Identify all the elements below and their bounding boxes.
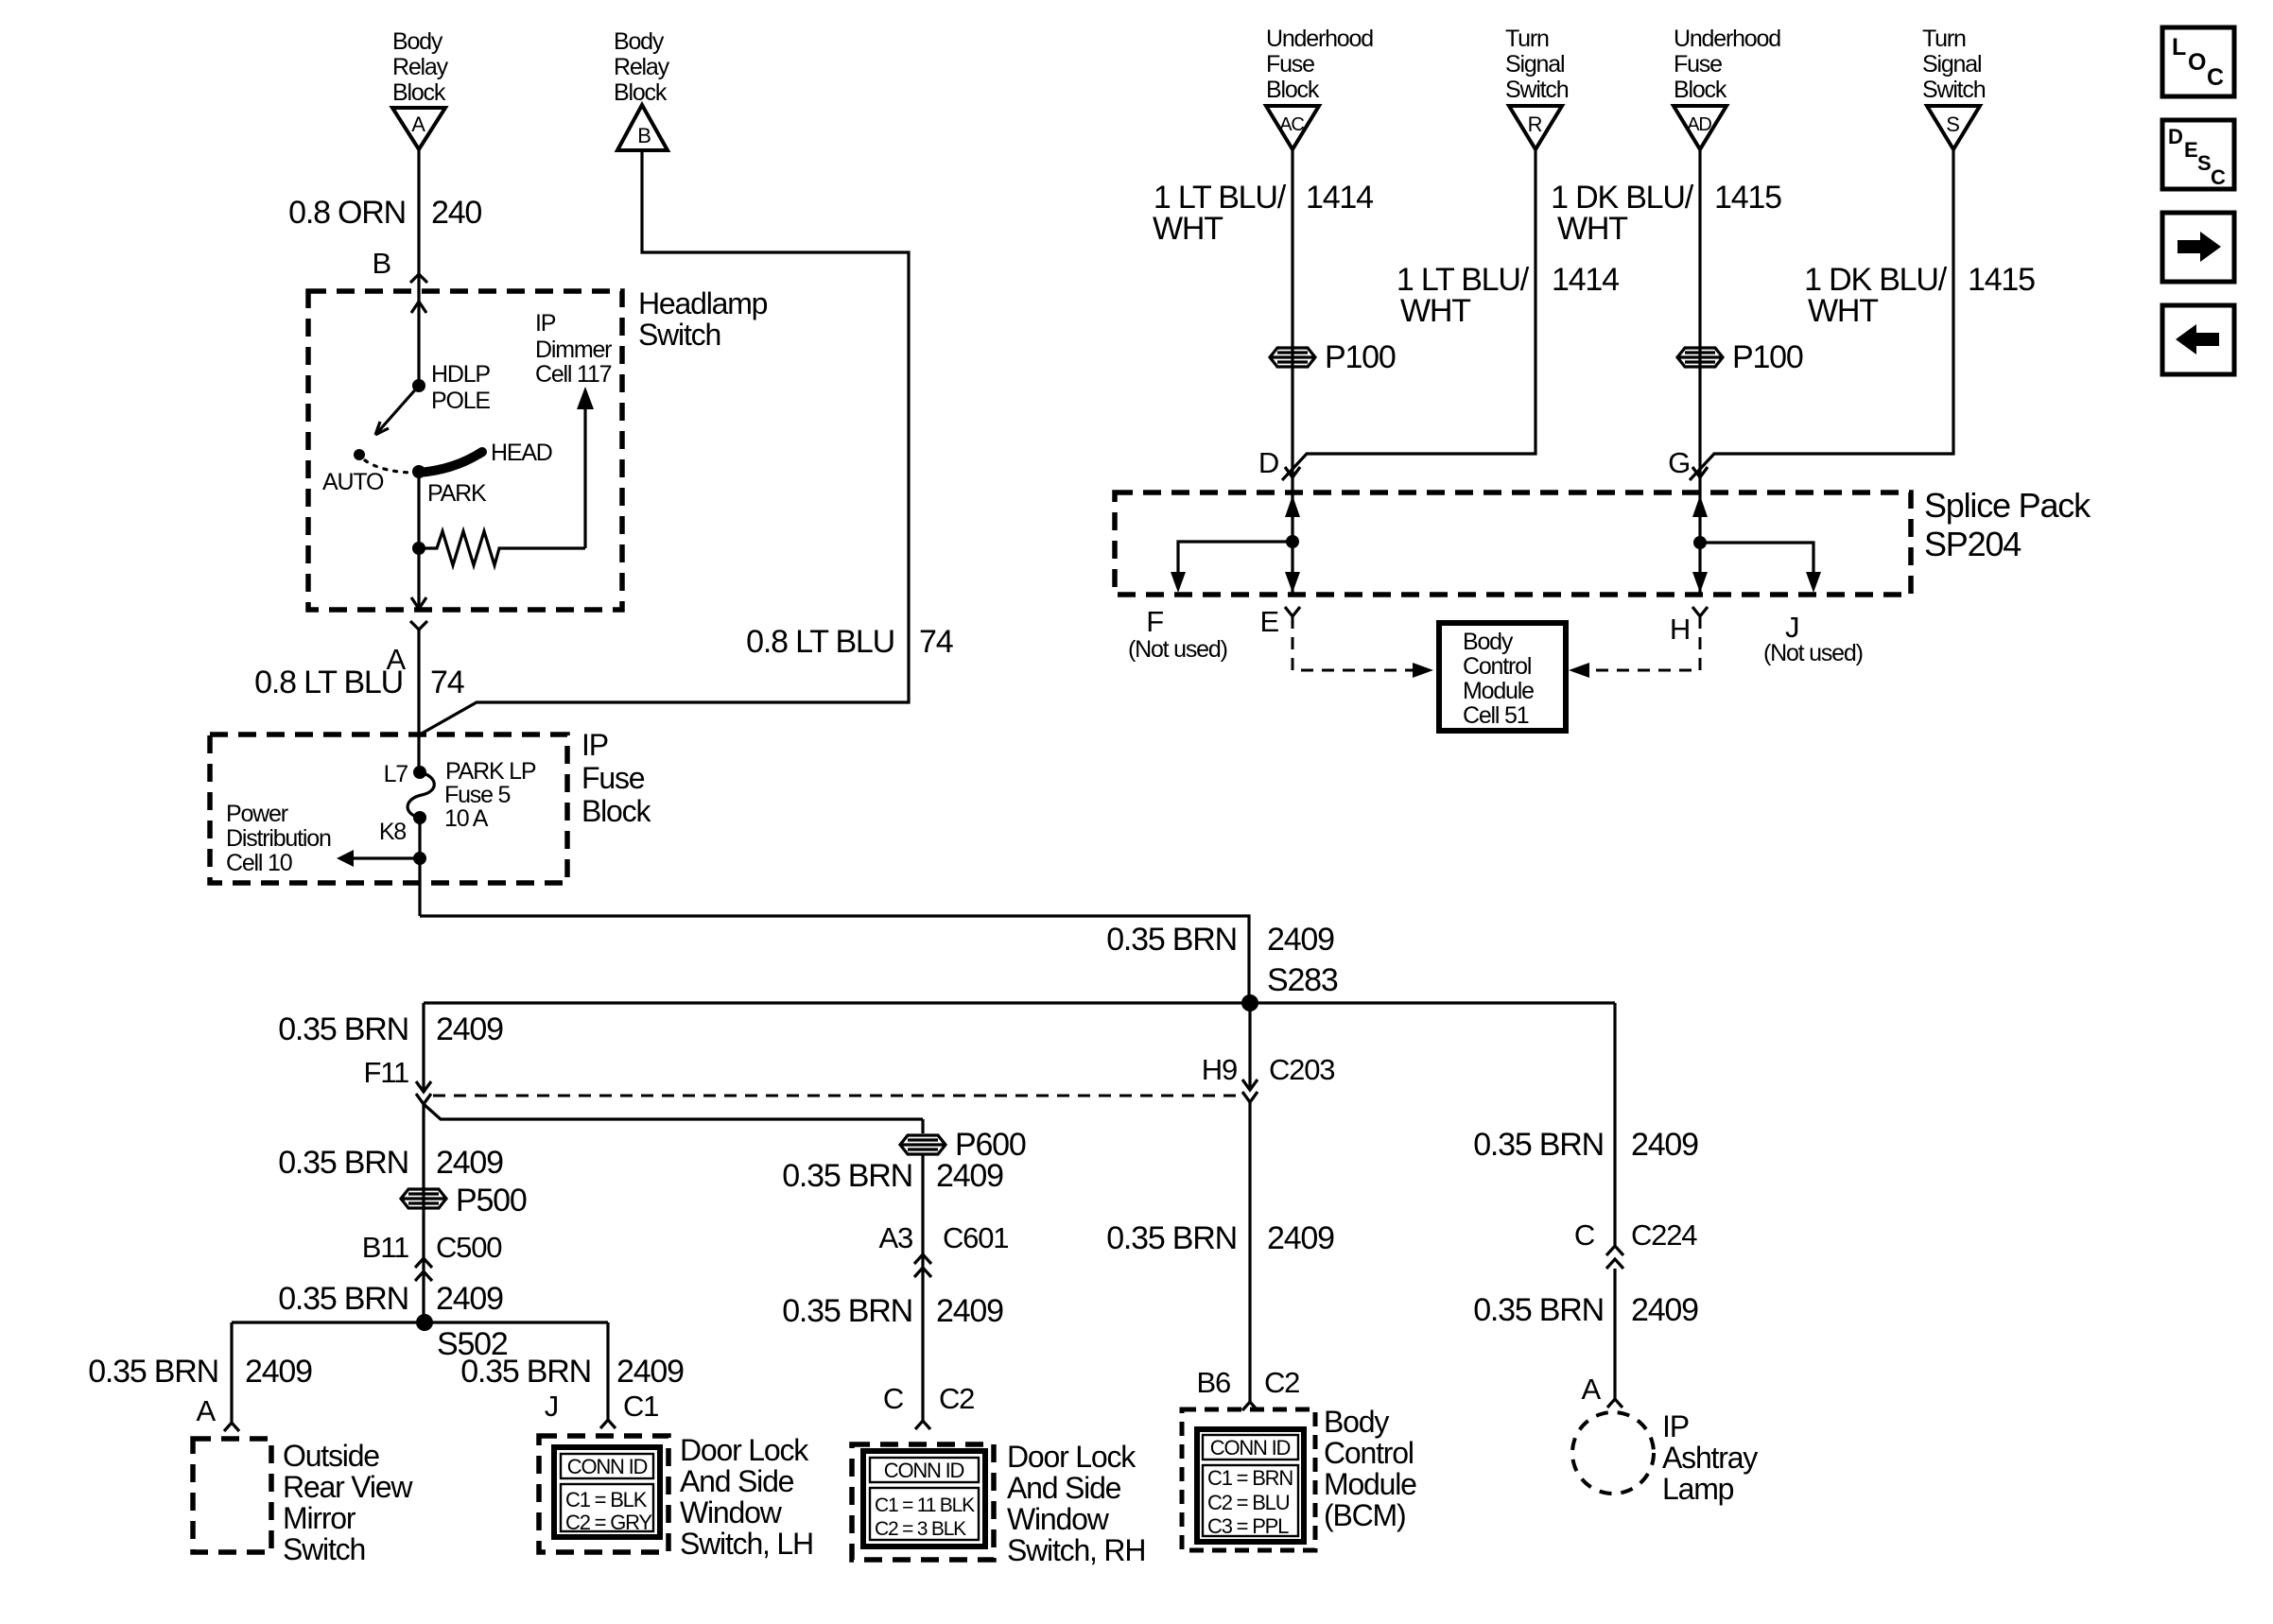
svg-text:POLE: POLE: [431, 388, 490, 414]
svg-text:1414: 1414: [1552, 262, 1619, 298]
terminal H9 / connector C203: [1202, 1053, 1335, 1086]
svg-text:F11: F11: [363, 1056, 408, 1089]
svg-text:2409: 2409: [436, 1011, 503, 1047]
svg-text:D: D: [2168, 125, 2182, 148]
svg-text:G: G: [1668, 446, 1690, 479]
junction to power distribution: [413, 852, 426, 865]
svg-text:Window: Window: [680, 1495, 783, 1529]
IP Dimmer Cell 117 label: [535, 310, 612, 388]
wire label 1 DK BLU/ WHT 1415: [1551, 180, 1781, 247]
terminal F (not used): [1128, 605, 1227, 663]
svg-text:Mirror: Mirror: [283, 1501, 356, 1535]
grommet P100 (second): [1677, 339, 1803, 375]
Outside Rear View Mirror Switch dashed box: [193, 1439, 271, 1552]
svg-text:(BCM): (BCM): [1324, 1498, 1405, 1532]
svg-text:Control: Control: [1324, 1436, 1414, 1470]
svg-text:0.35 BRN: 0.35 BRN: [278, 1281, 408, 1317]
terminal B11 / connector C500: [362, 1231, 503, 1264]
svg-text:D: D: [1258, 446, 1278, 479]
svg-text:C2: C2: [1264, 1366, 1299, 1399]
wire chevron A down to IP fuse block: [417, 630, 420, 772]
svg-text:C1 = BRN: C1 = BRN: [1207, 1466, 1293, 1490]
svg-text:Dimmer: Dimmer: [535, 337, 612, 363]
wire label 0.35 BRN 2409 (below P600): [782, 1158, 1003, 1194]
svg-text:0.35 BRN: 0.35 BRN: [782, 1158, 912, 1194]
svg-text:1415: 1415: [1714, 180, 1781, 216]
wire C224 down to lamp: [1613, 1269, 1616, 1399]
svg-text:J: J: [1785, 611, 1798, 644]
wire label 0.35 BRN 2409 (P500 leg): [278, 1145, 503, 1181]
headlamp switch dashed box: [308, 291, 622, 610]
svg-text:0.35 BRN: 0.35 BRN: [460, 1354, 591, 1390]
wire label 0.35 BRN 2409 (ashtray leg upper): [1473, 1127, 1698, 1163]
grommet P500: [401, 1183, 527, 1218]
svg-text:F: F: [1146, 605, 1163, 638]
splice pack D internal wire: [1291, 492, 1293, 595]
AUTO contact: [354, 449, 365, 460]
terminal C / connector C224: [1574, 1218, 1697, 1252]
wire label 0.35 BRN 2409 (ashtray leg lower): [1473, 1292, 1698, 1328]
terminal A3 / connector C601: [878, 1221, 1008, 1254]
svg-text:WHT: WHT: [1400, 293, 1470, 329]
CONN ID table RH: [863, 1451, 985, 1546]
wire left branch down to F11: [422, 1003, 425, 1089]
svg-text:0.8 ORN: 0.8 ORN: [288, 195, 406, 231]
svg-text:H: H: [1670, 613, 1690, 646]
svg-text:C: C: [2211, 165, 2226, 189]
svg-text:C203: C203: [1269, 1053, 1334, 1086]
svg-text:Power: Power: [226, 801, 288, 827]
svg-text:O: O: [2188, 49, 2206, 76]
wire label 0.35 BRN 2409 (F11 leg): [278, 1011, 503, 1047]
svg-text:HDLP: HDLP: [431, 361, 490, 388]
wire R down and over to D: [1282, 149, 1536, 480]
Body Control Module dashed box: [1182, 1409, 1315, 1550]
double chevron connector C224: [1606, 1246, 1623, 1269]
svg-text:Body: Body: [614, 28, 665, 55]
svg-text:WHT: WHT: [1808, 293, 1878, 329]
svg-text:C: C: [1574, 1218, 1595, 1252]
svg-text:0.35 BRN: 0.35 BRN: [1106, 1220, 1237, 1256]
svg-text:L: L: [2172, 34, 2186, 60]
svg-text:IP: IP: [581, 728, 608, 762]
svg-text:0.35 BRN: 0.35 BRN: [1473, 1127, 1604, 1163]
wire label 0.8 LT BLU 74 (left): [254, 665, 464, 700]
wire resistor up to IP dimmer arrow: [583, 406, 586, 548]
svg-text:E: E: [2184, 138, 2197, 162]
svg-text:Cell 117: Cell 117: [535, 361, 612, 388]
svg-text:2409: 2409: [1631, 1292, 1698, 1328]
svg-text:S283: S283: [1267, 962, 1338, 998]
junction node: [412, 542, 425, 555]
svg-text:Block: Block: [581, 794, 651, 828]
svg-text:C: C: [883, 1382, 904, 1415]
svg-text:IP: IP: [1662, 1409, 1689, 1443]
svg-text:P100: P100: [1325, 339, 1396, 375]
svg-text:L7: L7: [384, 761, 408, 787]
terminal C / connector C2: [883, 1382, 974, 1415]
svg-text:C601: C601: [943, 1221, 1008, 1254]
wire PARK down to resistor junction: [417, 472, 420, 548]
svg-text:C2 = 3 BLK: C2 = 3 BLK: [875, 1518, 966, 1540]
svg-text:Switch: Switch: [1505, 77, 1569, 103]
svg-text:1414: 1414: [1306, 180, 1373, 216]
connector arrows at C203: [1242, 1080, 1258, 1090]
svg-text:1415: 1415: [1968, 262, 2035, 298]
Body Control Module Cell 51 box: [1439, 623, 1566, 731]
svg-text:C1 = BLK: C1 = BLK: [565, 1488, 648, 1512]
wire F11 down to S502: [422, 1104, 425, 1322]
back arrow icon: [2162, 305, 2234, 374]
svg-text:Fuse: Fuse: [1674, 51, 1722, 78]
svg-text:2409: 2409: [1267, 1220, 1334, 1256]
IP Fuse Block name: [581, 728, 651, 828]
svg-text:And Side: And Side: [680, 1464, 794, 1498]
IP Ashtray Lamp dashed circle: [1572, 1412, 1654, 1494]
svg-text:C224: C224: [1631, 1218, 1697, 1252]
wire K8 down through box: [418, 818, 421, 916]
wire label 1 LT BLU/ WHT 1414 (R leg): [1397, 262, 1619, 329]
svg-text:AD: AD: [1687, 114, 1711, 135]
svg-text:WHT: WHT: [1153, 211, 1223, 247]
svg-text:Window: Window: [1007, 1502, 1110, 1536]
connector triangle B (Body Relay Block, pointing up): [617, 105, 668, 150]
svg-text:Module: Module: [1324, 1467, 1416, 1501]
Splice Pack SP204 dashed box: [1115, 492, 1911, 595]
svg-text:2409: 2409: [245, 1354, 312, 1390]
double chevron connector C601: [914, 1254, 931, 1277]
DESC icon: [2162, 120, 2234, 189]
svg-text:Underhood: Underhood: [1266, 26, 1373, 52]
svg-text:Signal: Signal: [1505, 51, 1564, 78]
svg-text:Door Lock: Door Lock: [1007, 1440, 1136, 1474]
svg-text:Distribution: Distribution: [226, 825, 331, 852]
svg-text:0.35 BRN: 0.35 BRN: [88, 1354, 218, 1390]
connector triangle S: [1927, 106, 1980, 149]
svg-text:Fuse: Fuse: [1266, 51, 1314, 78]
svg-text:C2 = BLU: C2 = BLU: [1207, 1491, 1290, 1514]
wire label 0.35 BRN 2409 (above S283): [1106, 922, 1334, 958]
svg-text:A: A: [411, 112, 425, 136]
connector triangle A (Body Relay Block): [392, 108, 445, 149]
Underhood Fuse Block label (AD): [1674, 26, 1780, 103]
wire from triangle A to headlamp switch: [417, 149, 420, 386]
wire label 0.35 BRN 2409 (BCM leg): [1106, 1220, 1334, 1256]
svg-text:0.35 BRN: 0.35 BRN: [782, 1293, 912, 1329]
svg-text:Relay: Relay: [614, 54, 670, 80]
terminal B6 / connector C2: [1196, 1366, 1299, 1399]
wire label 0.8 LT BLU 74 (right): [746, 624, 953, 660]
svg-text:74: 74: [919, 624, 953, 660]
svg-text:R: R: [1528, 112, 1542, 136]
double chevron connector C500: [415, 1258, 432, 1281]
PARK contact: [412, 465, 425, 478]
svg-text:Turn: Turn: [1922, 26, 1966, 52]
branch to P600: [424, 1104, 923, 1119]
connector triangle AC: [1266, 106, 1319, 149]
svg-text:B: B: [373, 247, 391, 280]
svg-text:A: A: [197, 1394, 217, 1427]
terminal J (not used): [1763, 611, 1863, 666]
svg-text:Module: Module: [1463, 678, 1534, 704]
connector triangle AD: [1674, 106, 1726, 149]
svg-text:74: 74: [430, 665, 464, 700]
Headlamp Switch name: [638, 286, 768, 352]
bus wire left and right from S283: [424, 1001, 1615, 1004]
arrow to Power Distribution: [348, 856, 420, 859]
direction arrow into switch: [411, 302, 426, 313]
wire C203 down to BCM: [1248, 1102, 1251, 1402]
svg-text:HEAD: HEAD: [491, 440, 552, 466]
svg-text:S: S: [2197, 151, 2211, 175]
svg-text:And Side: And Side: [1007, 1471, 1121, 1505]
dotted travel arc AUTO to PARK: [365, 460, 416, 473]
CONN ID table BCM: [1197, 1429, 1304, 1542]
svg-text:P100: P100: [1732, 339, 1803, 375]
resistor (dimmer rheostat): [419, 531, 585, 565]
svg-text:Switch, LH: Switch, LH: [680, 1527, 813, 1561]
svg-text:0.35 BRN: 0.35 BRN: [278, 1011, 408, 1047]
svg-text:K8: K8: [379, 819, 406, 845]
Turn Signal Switch label (R): [1505, 26, 1569, 103]
svg-text:SP204: SP204: [1924, 525, 2021, 563]
wire S283 down to BCM: [1248, 1003, 1251, 1089]
IP harness dashed boundary: [433, 1095, 1241, 1097]
svg-text:C2 = GRY: C2 = GRY: [565, 1511, 652, 1534]
svg-text:P500: P500: [456, 1183, 527, 1218]
svg-text:E: E: [1260, 605, 1279, 638]
terminal L7: [413, 766, 426, 779]
svg-text:CONN ID: CONN ID: [1210, 1436, 1291, 1460]
grommet P100: [1270, 339, 1396, 375]
wire AD down to splice pack G: [1698, 149, 1701, 492]
svg-text:Rear View: Rear View: [283, 1470, 413, 1504]
Body Relay Block B label: [614, 28, 670, 106]
splice pack G internal wire: [1698, 492, 1701, 595]
svg-text:J: J: [545, 1390, 558, 1423]
svg-text:Relay: Relay: [392, 54, 449, 80]
wire from triangle B around to headlamp feed: [420, 150, 909, 734]
splice S502: [416, 1314, 433, 1331]
wire label 0.35 BRN 2409 (door lock RH leg): [782, 1293, 1003, 1329]
svg-text:C: C: [2207, 64, 2224, 91]
svg-text:IP: IP: [535, 310, 556, 337]
svg-text:C3 = PPL: C3 = PPL: [1207, 1514, 1289, 1538]
svg-text:Block: Block: [614, 79, 668, 106]
svg-text:B11: B11: [362, 1231, 408, 1264]
svg-text:AUTO: AUTO: [322, 469, 384, 495]
IP Fuse Block dashed box: [210, 734, 567, 883]
svg-text:2409: 2409: [616, 1354, 684, 1390]
wire AC down to splice pack D: [1291, 149, 1293, 492]
svg-text:2409: 2409: [936, 1158, 1003, 1194]
svg-text:(Not used): (Not used): [1128, 636, 1227, 663]
svg-text:Switch: Switch: [283, 1532, 365, 1566]
wire label 1 DK BLU/ WHT 1415 (S leg): [1804, 262, 2035, 329]
in-line connector chevron at B: [410, 274, 427, 283]
switch wiper arrow to AUTO: [375, 386, 419, 435]
svg-text:B6: B6: [1196, 1366, 1230, 1399]
svg-text:Outside: Outside: [283, 1439, 379, 1473]
svg-text:Switch: Switch: [638, 318, 720, 352]
svg-text:2409: 2409: [936, 1293, 1003, 1329]
svg-text:Cell 10: Cell 10: [226, 850, 292, 876]
connector arrows at F11: [416, 1081, 431, 1092]
CONN ID table LH: [554, 1447, 660, 1537]
left leg to mirror switch: [230, 1322, 233, 1423]
svg-text:H9: H9: [1202, 1053, 1237, 1086]
wire label 0.8 ORN 240: [288, 195, 481, 231]
svg-text:Body: Body: [392, 28, 443, 55]
wire to S283: [420, 916, 1249, 1003]
svg-text:Signal: Signal: [1922, 51, 1981, 78]
dashed wire H to BCM: [1588, 616, 1700, 670]
fuse 5 PARK LP: [408, 772, 434, 818]
bus wire at S502: [232, 1321, 608, 1323]
in-line connector chevron at A: [410, 621, 427, 630]
branch to J: [1700, 543, 1813, 579]
svg-text:CONN ID: CONN ID: [884, 1459, 964, 1482]
svg-text:Lamp: Lamp: [1662, 1472, 1734, 1506]
svg-text:2409: 2409: [1267, 922, 1334, 958]
wire down to P600: [921, 1119, 924, 1133]
svg-text:Control: Control: [1463, 653, 1531, 680]
svg-text:Body: Body: [1463, 629, 1514, 655]
wire junction down and out of switch: [417, 548, 420, 606]
svg-text:A3: A3: [878, 1221, 912, 1254]
svg-text:A: A: [1582, 1373, 1602, 1406]
svg-text:0.8 LT BLU: 0.8 LT BLU: [746, 624, 894, 660]
svg-text:C1 = 11 BLK: C1 = 11 BLK: [875, 1494, 975, 1516]
svg-text:Switch, RH: Switch, RH: [1007, 1533, 1145, 1567]
svg-text:AC: AC: [1279, 114, 1304, 135]
svg-text:Block: Block: [392, 79, 446, 106]
svg-text:Underhood: Underhood: [1674, 26, 1780, 52]
svg-text:Splice Pack: Splice Pack: [1924, 486, 2091, 525]
terminal K8: [413, 811, 426, 824]
svg-text:Fuse 5: Fuse 5: [444, 782, 511, 808]
svg-text:0.35 BRN: 0.35 BRN: [1473, 1292, 1604, 1328]
svg-text:C500: C500: [436, 1231, 502, 1264]
dashed wire E to BCM: [1293, 616, 1414, 670]
svg-text:0.35 BRN: 0.35 BRN: [278, 1145, 408, 1181]
svg-text:Block: Block: [1266, 77, 1320, 103]
svg-text:WHT: WHT: [1557, 211, 1627, 247]
right leg to door lock LH: [606, 1322, 609, 1420]
wire label 1 LT BLU/ WHT 1414: [1153, 180, 1373, 247]
svg-text:10 A: 10 A: [444, 805, 489, 832]
svg-text:Body: Body: [1324, 1405, 1389, 1439]
HDLP POLE node: [412, 379, 425, 392]
svg-text:B: B: [637, 124, 651, 147]
wire right branch down to C224: [1613, 1003, 1616, 1245]
svg-text:Ashtray: Ashtray: [1662, 1441, 1758, 1475]
svg-text:240: 240: [431, 195, 481, 231]
svg-text:(Not used): (Not used): [1763, 640, 1863, 666]
svg-text:0.35 BRN: 0.35 BRN: [1106, 922, 1237, 958]
svg-text:C2: C2: [939, 1382, 974, 1415]
LOC icon: [2162, 27, 2234, 96]
svg-text:Switch: Switch: [1922, 77, 1986, 103]
connector triangle R: [1509, 106, 1562, 149]
thick wiper blade toward HEAD: [419, 452, 482, 473]
wire label 0.35 BRN 2409 (S502 leg): [278, 1281, 503, 1317]
svg-text:Turn: Turn: [1505, 26, 1549, 52]
grommet P600: [900, 1127, 1026, 1163]
svg-text:2409: 2409: [436, 1145, 503, 1181]
Door Lock And Side Window Switch LH dashed box: [539, 1436, 668, 1552]
Underhood Fuse Block label (AC): [1266, 26, 1373, 103]
svg-text:Door Lock: Door Lock: [680, 1433, 809, 1467]
svg-text:Block: Block: [1674, 77, 1727, 103]
svg-text:S: S: [1946, 112, 1959, 136]
Turn Signal Switch label (S): [1922, 26, 1986, 103]
svg-text:2409: 2409: [436, 1281, 503, 1317]
svg-text:PARK LP: PARK LP: [445, 758, 536, 785]
Body Relay Block A label: [392, 28, 449, 106]
Door Lock And Side Window Switch RH dashed box: [852, 1444, 994, 1560]
svg-text:Fuse: Fuse: [581, 761, 645, 795]
svg-text:C1: C1: [623, 1390, 658, 1423]
svg-text:Cell 51: Cell 51: [1463, 702, 1529, 729]
svg-text:0.8 LT BLU: 0.8 LT BLU: [254, 665, 403, 700]
svg-text:Headlamp: Headlamp: [638, 286, 768, 320]
svg-text:2409: 2409: [1631, 1127, 1698, 1163]
svg-text:CONN ID: CONN ID: [567, 1455, 648, 1478]
branch to F: [1178, 542, 1293, 579]
svg-text:PARK: PARK: [427, 480, 487, 507]
forward arrow icon: [2162, 213, 2234, 282]
wire S down and over to G: [1690, 149, 1953, 480]
